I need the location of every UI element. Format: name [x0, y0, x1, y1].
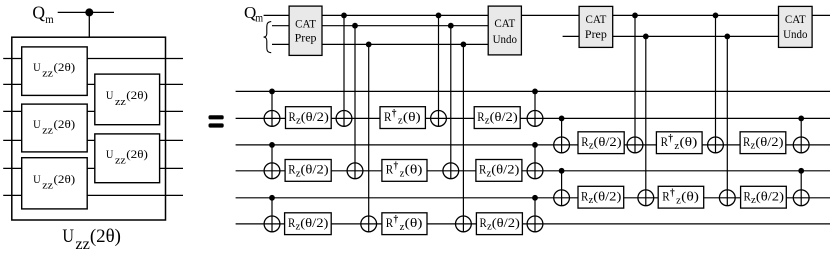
wire Q_m (left panel) — [58, 11, 114, 13]
svg-text:(2θ): (2θ) — [126, 90, 148, 102]
cnot target wire F x=535.0 — [527, 216, 543, 232]
svg-text:R: R — [480, 215, 488, 230]
svg-text:†: † — [670, 188, 675, 199]
cnot target wire B x=438.5 — [431, 111, 447, 127]
svg-text:(θ/2): (θ/2) — [301, 162, 329, 177]
control dot cat wire x=368.7 — [366, 42, 372, 48]
cnot target wire B x=272.0 — [264, 111, 280, 127]
wire L1 (left panel) — [3, 58, 183, 60]
svg-text:zz: zz — [115, 155, 126, 167]
wire vertical cat control x=344.0 — [343, 15, 345, 126]
cnot target wire D x=450.8 — [443, 163, 459, 179]
control dot D-E x=801.2 — [798, 168, 804, 174]
wire vertical cat control x=645.8 — [645, 36, 647, 205]
svg-text:CAT: CAT — [785, 14, 806, 26]
control dot cat wire x=715.5 — [713, 13, 719, 19]
wire vertical cnot C-D x=535.0 — [534, 145, 536, 179]
svg-text:(θ/2): (θ/2) — [756, 189, 784, 204]
svg-text:R: R — [581, 134, 589, 149]
wire vertical cnot A-B x=272.0 — [271, 91, 273, 126]
svg-text:R: R — [288, 109, 296, 124]
wire w1 Q_m (right panel) — [264, 14, 830, 16]
label Q_m (left panel) — [32, 2, 54, 26]
gate R_dagger_z(theta) wire F x=381.9 — [382, 213, 427, 235]
wire vertical cat control x=368.7 — [368, 44, 370, 231]
svg-text:U: U — [33, 62, 41, 74]
wire E (data qubit) — [236, 197, 830, 199]
gate R_dagger_z(theta) wire B x=380.0 — [380, 107, 425, 129]
svg-text:(2θ): (2θ) — [54, 119, 76, 131]
gate R_dagger_z(theta) wire E x=658.2 — [658, 186, 704, 208]
svg-text:(θ): (θ) — [405, 215, 423, 230]
svg-text:R: R — [662, 189, 670, 204]
gate R_z(theta/2) wire D x=285.1 — [285, 160, 331, 182]
svg-text:(θ): (θ) — [403, 109, 421, 124]
wire vertical cnot B-C x=561.6 — [561, 118, 563, 152]
outer box U_zz(2theta) (left panel) — [12, 37, 166, 220]
gate R_z(theta/2) wire E x=740.6 — [741, 186, 787, 208]
cnot target wire E x=727.3 — [719, 190, 735, 206]
svg-text:†: † — [392, 108, 397, 119]
cnot target wire F x=272.0 — [264, 216, 280, 232]
wire L4 (left panel) — [3, 139, 183, 141]
svg-text:(θ/2): (θ/2) — [301, 109, 329, 124]
cnot target wire D x=535.0 — [527, 163, 543, 179]
svg-text:(θ/2): (θ/2) — [490, 109, 518, 124]
svg-text:(θ): (θ) — [681, 189, 699, 204]
svg-text:m: m — [45, 12, 54, 26]
wire C (data qubit) — [236, 144, 830, 146]
cnot target wire D x=272.0 — [264, 163, 280, 179]
svg-text:(θ): (θ) — [680, 134, 698, 149]
wire vertical cat control x=450.8 — [450, 26, 452, 179]
cnot target wire F x=368.7 — [361, 216, 377, 232]
control dot E-F x=535.0 — [532, 195, 538, 201]
control dot cat wire x=463.4 — [461, 42, 467, 48]
control dot cat wire x=727.3 — [724, 34, 730, 40]
svg-text:Prep: Prep — [585, 29, 607, 41]
wire vertical cnot E-F x=272.0 — [271, 198, 273, 232]
svg-text:CAT: CAT — [295, 18, 316, 30]
svg-text:zz: zz — [42, 180, 53, 192]
cnot target wire F x=463.4 — [456, 216, 472, 232]
svg-text:R: R — [744, 189, 752, 204]
wire w2b ancilla (second half) — [563, 35, 790, 37]
cnot target wire C x=561.6 — [554, 137, 570, 153]
svg-text:R: R — [288, 162, 296, 177]
wire vertical cnot D-E x=561.6 — [561, 171, 563, 206]
control dot cat wire x=635.0 — [632, 13, 638, 19]
control dot D-E x=561.6 — [559, 168, 565, 174]
svg-text:U: U — [106, 90, 114, 102]
svg-text:R: R — [743, 134, 751, 149]
gate R_z(theta/2) wire B x=474.2 — [474, 107, 520, 129]
cnot target wire C x=715.5 — [708, 137, 724, 153]
control dot cat wire x=355.0 — [352, 23, 358, 29]
svg-text:U: U — [106, 149, 114, 161]
svg-text:(2θ): (2θ) — [90, 226, 121, 247]
cnot target wire D x=355.0 — [347, 163, 363, 179]
gate R_z(theta/2) wire F x=284.6 — [285, 213, 332, 235]
box CAT Prep (first) — [289, 6, 322, 55]
svg-text:CAT: CAT — [586, 14, 607, 26]
svg-text:R: R — [288, 215, 296, 230]
cnot target wire C x=801.2 — [793, 137, 809, 153]
control dot cat wire x=645.8 — [643, 34, 649, 40]
wire L3 (left panel) — [3, 110, 183, 112]
control dot Q_m (left panel) — [85, 8, 93, 16]
cnot target wire C x=635.0 — [627, 137, 643, 153]
control dot cat wire x=450.8 — [448, 23, 454, 29]
wire L6 (left panel) — [3, 194, 183, 196]
control dot cat wire x=344.0 — [341, 13, 347, 19]
gate R_z(theta/2) wire E x=578.0 — [578, 186, 624, 208]
control dot B-C x=561.6 — [559, 116, 565, 122]
cnot target wire B x=535.0 — [527, 111, 543, 127]
wire vertical cat control x=355.0 — [354, 26, 356, 179]
gate R_dagger_z(theta) wire C x=656.4 — [656, 132, 702, 154]
svg-text:†: † — [668, 134, 673, 145]
wire Q_m control drop (left panel) — [88, 12, 90, 37]
wire vertical cat control x=438.5 — [438, 15, 440, 126]
cnot target wire B x=344.0 — [336, 111, 352, 127]
gate U_zz(2theta) U3 (qubits 5-6) — [22, 158, 88, 209]
wire vertical cat control x=727.3 — [726, 36, 728, 205]
svg-text:(2θ): (2θ) — [54, 62, 76, 74]
svg-text:Q: Q — [32, 2, 45, 22]
control dot A-B x=272.0 — [269, 89, 275, 95]
svg-text:zz: zz — [75, 236, 90, 253]
svg-text:R: R — [661, 134, 669, 149]
gate U_zz(2theta) U4 (qubits 2-3) — [95, 74, 160, 125]
wire vertical cnot D-E x=801.2 — [800, 171, 802, 206]
control dot C-D x=272.0 — [269, 142, 275, 148]
svg-text:(2θ): (2θ) — [54, 174, 76, 186]
control dot E-F x=272.0 — [269, 195, 275, 201]
wire vertical cnot E-F x=535.0 — [534, 198, 536, 232]
svg-text:Prep: Prep — [295, 33, 317, 45]
svg-text:Undo: Undo — [493, 34, 518, 46]
wire w3 ancilla — [272, 43, 495, 45]
gate R_z(theta/2) wire D x=475.9 — [476, 160, 522, 182]
svg-text:R: R — [477, 109, 485, 124]
box CAT Prep (second) — [579, 6, 613, 47]
wire vertical cnot C-D x=272.0 — [271, 145, 273, 179]
wire B (data qubit) — [236, 117, 830, 119]
svg-text:(θ/2): (θ/2) — [593, 189, 621, 204]
svg-text:(θ): (θ) — [405, 162, 423, 177]
svg-text:(θ/2): (θ/2) — [594, 134, 622, 149]
gate U_zz(2theta) U5 (qubits 4-5) — [95, 134, 160, 183]
svg-text:U: U — [62, 226, 74, 247]
svg-text:(θ/2): (θ/2) — [300, 215, 328, 230]
wire vertical cat control x=635.0 — [634, 15, 636, 152]
svg-text:U: U — [33, 174, 41, 186]
svg-text:zz: zz — [115, 96, 126, 108]
wire vertical cnot A-B x=535.0 — [534, 91, 536, 126]
wire L5 (left panel) — [3, 167, 183, 169]
svg-text:†: † — [394, 215, 399, 226]
gate R_z(theta/2) wire C x=578.0 — [578, 132, 624, 154]
wire vertical cnot B-C x=801.2 — [800, 118, 802, 152]
svg-text:R: R — [384, 109, 392, 124]
wire L2 (left panel) — [3, 83, 183, 85]
control dot C-D x=535.0 — [532, 142, 538, 148]
svg-text:R: R — [581, 189, 589, 204]
gate R_z(theta/2) wire C x=740.1 — [740, 132, 786, 154]
brace ancilla group — [264, 22, 272, 53]
wire F (data qubit) — [236, 223, 830, 225]
svg-text:R: R — [386, 162, 394, 177]
svg-text:(2θ): (2θ) — [126, 149, 148, 161]
label Q_m (right panel) — [244, 3, 264, 25]
control dot A-B x=535.0 — [532, 89, 538, 95]
svg-text:Undo: Undo — [783, 29, 808, 41]
gate U_zz(2theta) U1 (qubits 1-2) — [22, 47, 88, 96]
svg-text:(θ/2): (θ/2) — [755, 134, 783, 149]
equals sign — [209, 115, 224, 127]
cnot target wire E x=801.2 — [793, 190, 809, 206]
control dot B-C x=801.2 — [798, 116, 804, 122]
svg-text:CAT: CAT — [494, 18, 515, 30]
wire A (data qubit) — [236, 90, 830, 92]
wire vertical cat control x=463.4 — [462, 44, 464, 231]
svg-text:zz: zz — [42, 68, 53, 80]
control dot cat wire x=438.5 — [436, 13, 442, 19]
svg-text:R: R — [386, 215, 394, 230]
wire w2 ancilla — [272, 25, 495, 27]
box CAT Undo (second) — [779, 6, 813, 47]
gate R_z(theta/2) wire F x=476.4 — [476, 213, 522, 235]
wire vertical cat control x=715.5 — [715, 15, 717, 152]
gate U_zz(2theta) U2 (qubits 3-4) — [22, 104, 88, 152]
cnot target wire E x=645.8 — [638, 190, 654, 206]
box CAT Undo (first) — [488, 6, 521, 55]
gate R_dagger_z(theta) wire D x=381.9 — [382, 160, 427, 182]
svg-text:m: m — [255, 10, 263, 24]
svg-text:zz: zz — [42, 124, 53, 136]
cnot target wire E x=561.6 — [554, 190, 570, 206]
wire D (data qubit) — [236, 170, 830, 172]
svg-text:(θ/2): (θ/2) — [492, 215, 520, 230]
svg-text:†: † — [394, 161, 399, 172]
svg-text:U: U — [33, 119, 41, 131]
gate R_z(theta/2) wire B x=285.5 — [286, 107, 332, 129]
svg-text:(θ/2): (θ/2) — [491, 162, 519, 177]
caption U_zz(2theta) (left panel) — [62, 226, 121, 253]
svg-text:R: R — [479, 162, 487, 177]
